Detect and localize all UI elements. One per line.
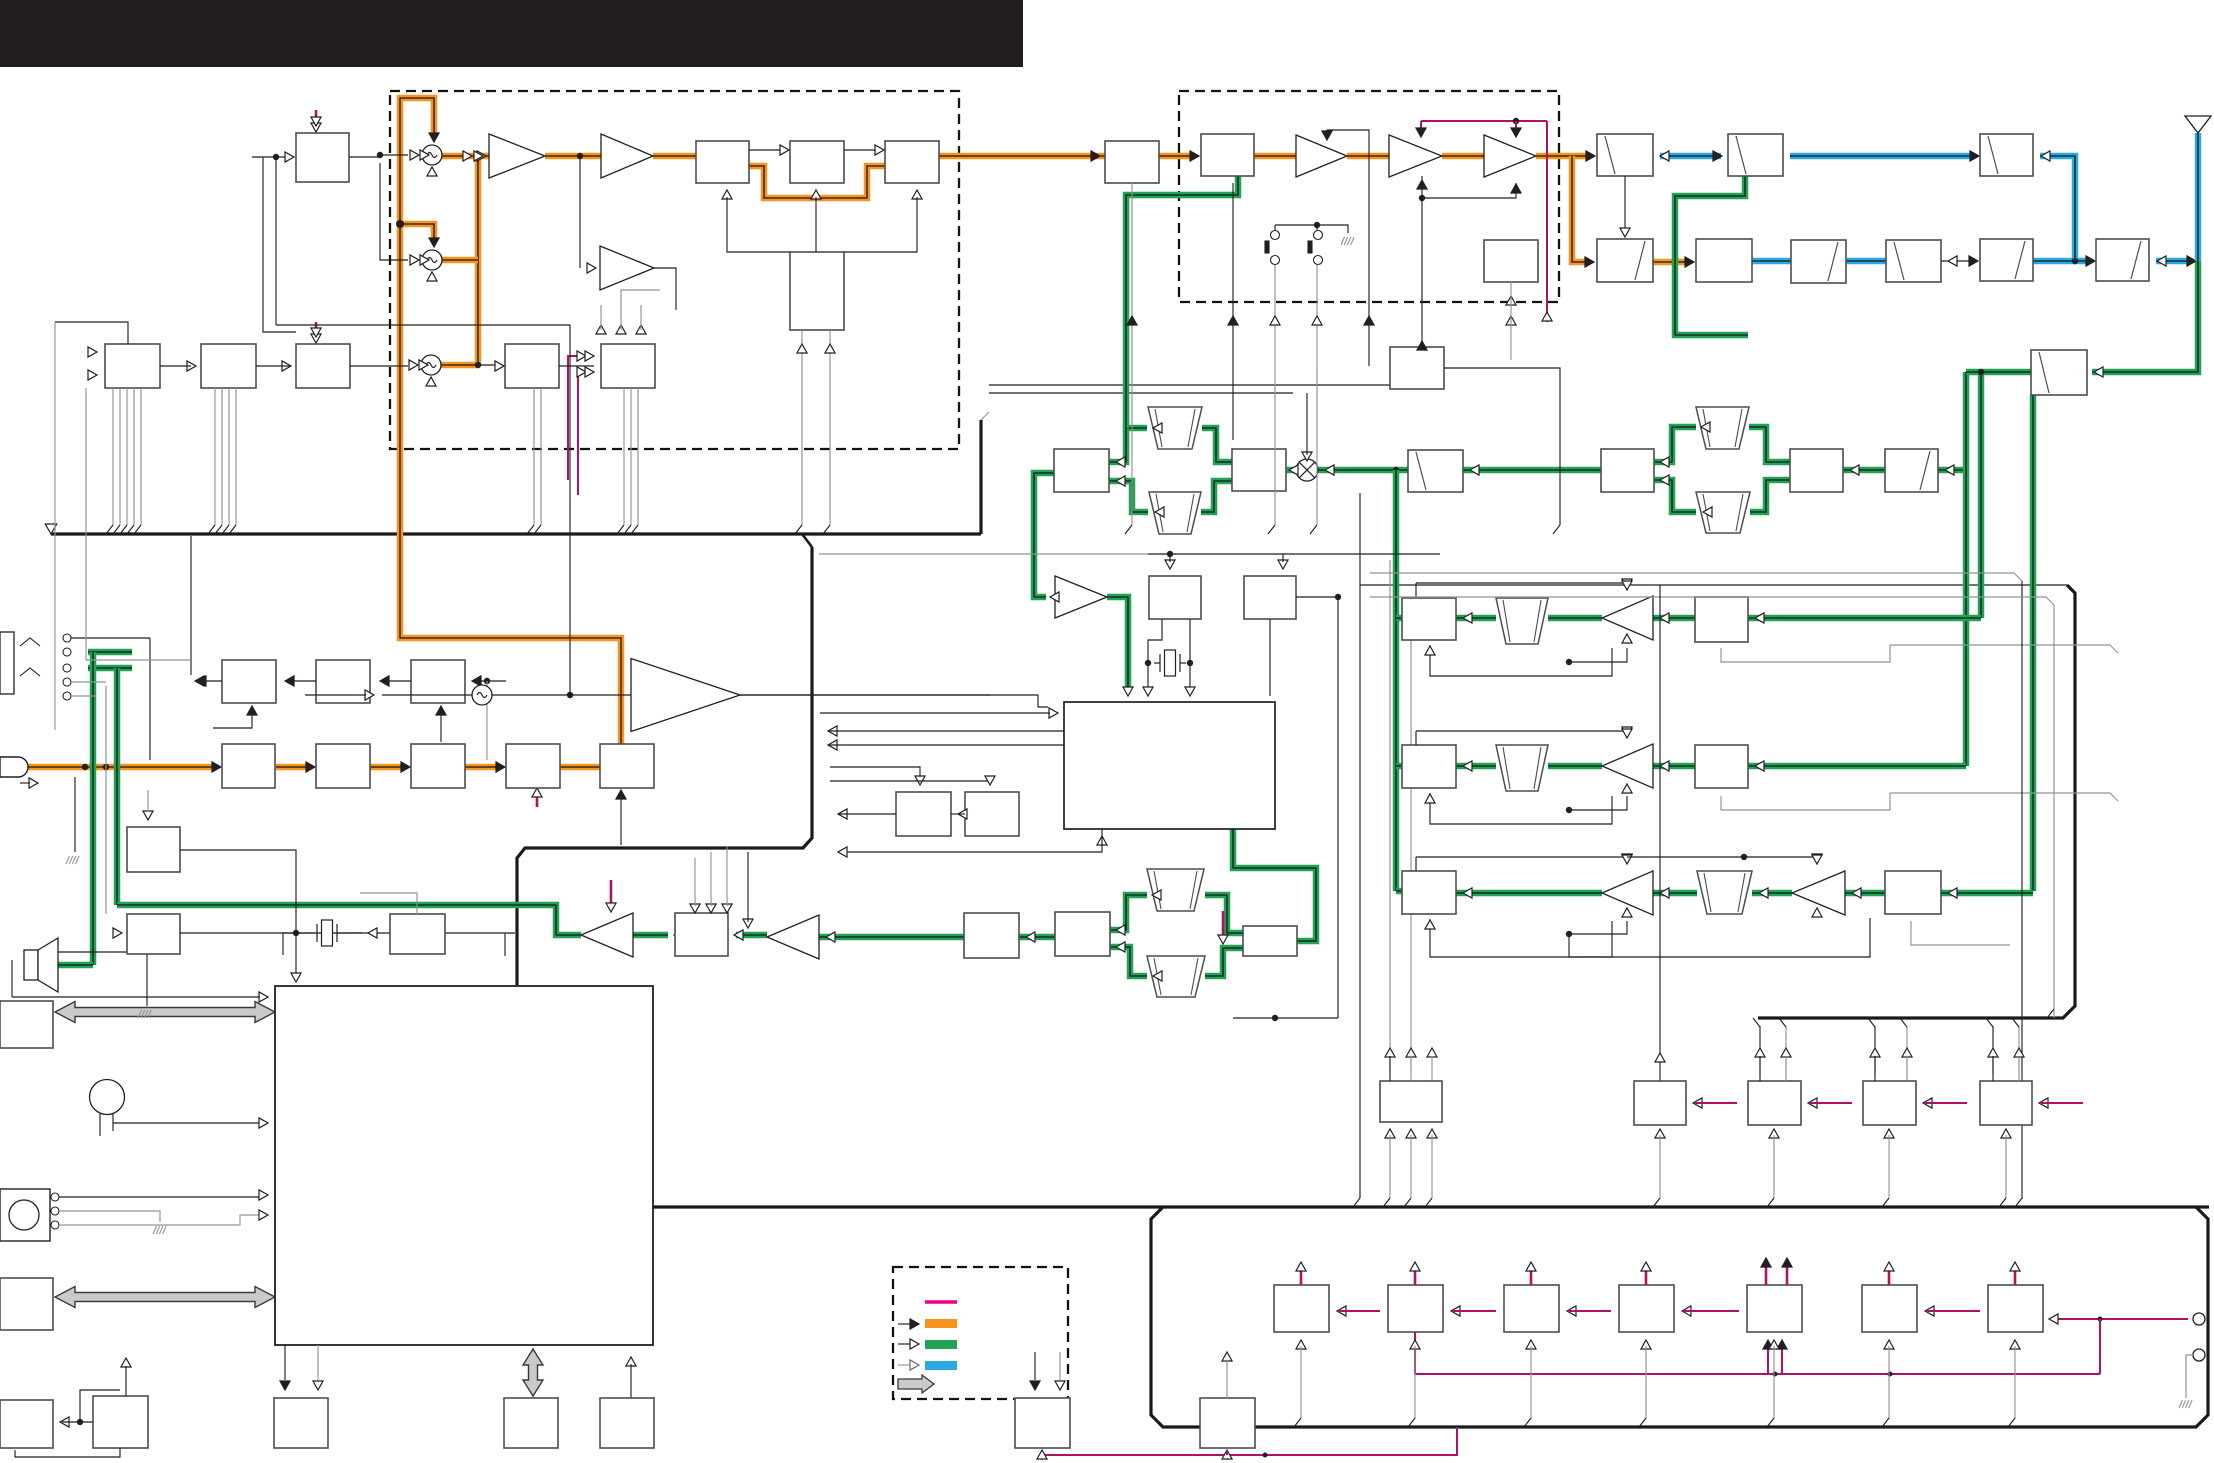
arrow p3 left [368,928,377,938]
wire j1 top b [710,852,712,906]
green rowC amp2-sc [1845,890,1885,897]
z1 border join [1294,1418,1301,1427]
arrow k3-k2 [380,676,389,686]
wire j1 top c [726,846,728,906]
arrow i1 in [495,361,504,371]
wire z1 bot [1300,1346,1302,1419]
arrow into vco2 [420,255,429,265]
arrow z4 top [1641,1262,1651,1271]
amp PA final [1484,135,1536,177]
x2022 join [2015,1198,2022,1207]
dot rowC top [1741,854,1747,860]
wire y4 bot [2005,1135,2007,1198]
green rowB trap-amp [1548,763,1602,770]
wire sA bottom [1721,645,1890,662]
z6 border join [1882,1418,1889,1427]
dot xtal b [1187,660,1193,666]
wire f1 feed [1421,198,1423,347]
wire y3 feed 0 [1874,1026,1876,1074]
rail ctl b [1370,597,2054,605]
green rtx riser b [1963,372,1970,766]
wire pin2 drop [2186,1355,2193,1398]
wire mic gnd [74,777,76,852]
green r1 riser to dsp [1233,829,1316,941]
connector mic body [0,1189,50,1241]
block PLL IC H3 [296,344,350,388]
wire ptt c [59,1215,260,1225]
arrow h1 in b [88,370,97,380]
f1 join [1553,525,1560,534]
ground panel [2179,1400,2192,1408]
arrow q4 in gray [1055,1381,1065,1390]
wire e2 bottom [1510,282,1512,360]
block TX filter C2 [790,141,844,183]
wire i2 drop 2 [637,388,639,525]
orange t1-t2 [276,764,309,771]
magenta junction [1513,118,1519,124]
wire smeter a [830,767,920,778]
arrow ptt small [29,778,38,788]
legend blue lead [898,1364,910,1366]
blue g3-g4 [1790,153,1973,160]
rail x1360 [1359,493,1361,1198]
tick z3 [1530,1270,1533,1285]
arrow la right a [1116,457,1125,467]
d1 join a [795,525,802,534]
arrow i2 top c [636,325,646,334]
wire h2 drop 1 [221,388,223,525]
h2 join 2 [222,525,229,534]
green speaker feed [47,962,93,969]
arrow c2 bottom [811,190,821,199]
block rowA S [1695,597,1748,642]
jack contact 4 [63,692,71,700]
block lpf R2f [2096,239,2149,281]
block keys left [0,1278,53,1330]
block shift reg H1 [105,344,160,388]
cpu bus arrow upper [55,1002,275,1023]
arrow y3 bot [1884,1129,1894,1138]
main unit bottom bus [653,1205,2209,1208]
green AF main run [117,905,581,935]
block APC amp [296,133,349,182]
h2 join 1 [215,525,222,534]
speaker symbol [24,938,58,992]
filter rowC [1697,871,1752,914]
tick z4 [1645,1270,1648,1285]
block shift reg H2 [201,344,256,388]
arrow z5 top 1 [1782,1258,1792,1267]
arrow trapgl left [1153,971,1162,981]
green qb upper a [1654,427,1696,462]
block panel key Z2 [1388,1285,1443,1332]
block quad-g left Lg [1055,912,1110,956]
arrow rx rf tick [1218,935,1228,944]
arrow y1 bot [1655,1129,1665,1138]
arrow y0 top 0 [1385,1048,1395,1057]
dashed box legend [893,1267,1068,1399]
wire y0 top 1 [1410,1056,1412,1081]
block TX drive C3 [885,141,939,183]
y0 bus join 2 [1425,1198,1432,1207]
wire q1 feed gray [317,1345,319,1380]
arrow z4 bot [1641,1340,1651,1349]
green IF down to dsp [1034,473,1054,597]
h2 join 3 [229,525,236,534]
wire h2 drop 2 [228,388,230,525]
arrow af amp tick [606,903,616,912]
arrow apc tick [311,123,321,132]
y0 bus join 0 [1383,1198,1390,1207]
block sql amp [965,792,1019,836]
magenta pa riser [1546,121,1548,322]
orange down branch [1572,156,1588,262]
block rowC S [1885,871,1941,914]
arrow rowB into n2 [1463,761,1472,771]
wire m1 xtal a [1148,619,1162,690]
wire tcxo out [492,694,631,696]
block af sw P1 [127,827,180,872]
wire h1 drop 1 [119,388,121,525]
filter quad-b upper [1696,407,1749,449]
wire y0 top 2 [1431,1056,1433,1081]
y2 join 0 [1753,1018,1760,1027]
mic junction a [82,764,88,770]
arrow trapbu left [1701,422,1710,432]
block eeprom Q2 [504,1398,558,1448]
arrow rowC amp2 feed [1812,855,1822,864]
wire ref bend [740,695,1048,707]
wire sw drop a2 [1274,366,1276,525]
tick tx alc [536,791,539,807]
h1 join 4 [134,525,141,534]
arrow rowC into amp2 [1852,888,1861,898]
amp TX buffer2 [601,134,653,178]
wire sw drop b2 [1316,366,1318,525]
arrow cpu ptt a [259,1190,268,1200]
arrow rowC into n3 [1463,888,1472,898]
wire rxbuf out [654,268,676,310]
wire z2 bot [1414,1346,1416,1419]
arrow rowA into sa [1755,613,1764,623]
green qb upper b [1749,427,1790,462]
arrow q0a in [60,1417,69,1427]
arrow z6 bot [1884,1340,1894,1349]
arrow y0 top 1 [1406,1048,1416,1057]
wire d1 right loop [844,197,917,252]
wire e1 bottom [1232,183,1234,366]
dot rowA ctl [1566,659,1572,665]
wire h3 out [350,365,408,367]
green rowA amp-sa [1653,615,1695,622]
wire cpu top in [12,996,260,998]
block lpf R2a [1597,239,1653,282]
crystal X1 [1154,650,1186,676]
z4 border join [1639,1418,1646,1427]
arrow into rbeta [1850,465,1859,475]
i2 join 2 [631,525,638,534]
arrow vco1 bottom [427,167,437,176]
wire y0 top 0 [1389,1056,1391,1081]
connector pin 1 [2193,1313,2205,1325]
legend green swatch [925,1340,957,1349]
wire y0 bot 2 [1431,1135,1433,1198]
wire c2-c3 link [844,149,878,151]
blue row2 b-c [1752,258,1791,265]
filter rowB [1496,745,1548,791]
block ant sw G1 [1597,134,1653,176]
arrow h1-h2 [187,361,196,371]
block eeprom Q0b [93,1396,148,1448]
wire smeter b [830,778,990,781]
block quad-b right Rb [1790,449,1843,492]
arrow a5 bottom [1511,184,1521,193]
arrow dashed pass a [1270,316,1280,325]
arrow q3 top [626,1357,636,1366]
wire i2 out up c [640,305,642,330]
wire z stub 0 [1339,1310,1380,1312]
arrow lg right a [1116,925,1125,935]
wire border drop [747,852,749,922]
wire a4 bottom [1422,176,1516,198]
arrow p1 top [143,811,153,820]
arrow rowA amp feed [1622,581,1632,590]
orange junction vco2 [396,220,404,228]
arrow q1 in black [280,1381,290,1390]
tick z2 [1414,1270,1417,1285]
wire y1 top link [1659,1074,1661,1081]
orange to ant switch [1572,153,1590,160]
IC DSP baseband [1064,702,1275,829]
wire f1 side [1444,368,1560,525]
arrow sm out [838,809,847,819]
block lpf R2b [1696,239,1752,282]
arrow z stub 1 [1451,1306,1460,1316]
block mic lim T4 [506,744,560,788]
filter quad-g lower [1147,956,1205,997]
arrow vco1 out a [463,151,472,161]
orange t4-t5 [560,764,600,771]
arrow dsp in b [1185,687,1195,696]
wire a3 drop [1368,164,1370,366]
arrow k1 left in [195,676,204,686]
connector contact 2 [51,1221,59,1229]
block lcd left [0,1001,53,1048]
mixer product det [1296,459,1318,481]
arrow af into j1 [674,930,683,940]
wire y2 feed2 1 [1785,1056,1787,1081]
cpu bus arrow lower [55,1287,275,1308]
green jack loop lower [88,665,132,672]
wire p2 out [180,932,515,934]
arrow trapl left [1155,507,1164,517]
block lpf R2e [1980,239,2033,281]
arrow c3 bottom [912,190,922,199]
amp rowB [1602,744,1653,788]
arrow y0 bot 1 [1406,1129,1416,1138]
orange to PA in [1159,153,1194,160]
arrow into g3 [1713,151,1722,161]
arrow rowB amp feed [1622,729,1632,738]
tick rx rf amp [1222,911,1225,935]
arrow smeter b [985,776,995,785]
arrow amp top 0 [1622,579,1632,588]
ground ptt [153,1226,166,1234]
wire z stub 5 [1927,1310,1980,1312]
dot m1 feed [1167,551,1173,557]
arrow into vco1 [420,150,429,160]
wire y2 magenta [1810,1102,1852,1104]
green junction w1 [1393,467,1399,473]
arrow into w1 [1470,465,1479,475]
h1 join 1 [113,525,120,534]
wire h1 left drop [54,322,56,730]
rail x2054 gray [2053,605,2055,1018]
i1 join 0 [527,525,534,534]
green ra-mixer [1286,467,1296,474]
green qb lower b [1750,480,1790,512]
orange row2 link [1653,259,1689,266]
wire hrow link [86,388,191,660]
arrow z3 top [1526,1262,1536,1271]
wire rowB top rise [1415,731,1417,745]
arrow into j1 [734,930,743,940]
arrow y4 top 1 [2014,1048,2024,1057]
wire jack c [71,681,106,683]
arrow i2 top b [616,325,626,334]
middle region bottom-right border [1758,585,2075,1018]
arrow z1 bot [1296,1340,1306,1349]
arrow pll tick [311,334,321,343]
arrow z2 bot [1410,1340,1420,1349]
arrow rowB into amp [1660,761,1669,771]
green qg upper a [1110,895,1147,930]
arrow tcxo in [365,690,374,700]
wire rowC fb [1430,919,1612,957]
h1 join 2 [120,525,127,534]
arrow z6 top [1884,1262,1894,1271]
switch thermal 2 [1308,231,1323,265]
arrow c3 in [875,145,884,155]
wire k1 out [199,680,222,682]
arrow h3 top [311,328,321,337]
arrow b1 top [311,117,321,126]
arrow pa drop b [1511,128,1521,137]
wire y2 feed 1 [1785,1026,1787,1074]
orange buf detour [749,166,885,198]
wire b1 out [349,156,380,158]
green rowA trap-amp [1548,615,1602,622]
legend arrow open gray [910,1360,919,1370]
arrow vco3 bottom [426,377,436,386]
wire q0a link [62,1421,93,1423]
switch stub b [1316,225,1318,230]
orange t2-t3 [370,764,404,771]
wire y1 bot [1659,1135,1661,1198]
arrow into e1 [1190,151,1199,161]
ground mic [66,856,79,864]
dashed box TX VCO unit [390,91,959,449]
arrow out g1 [1660,151,1669,161]
dot rxbuf [577,153,583,159]
arrow vco1 in [410,150,419,160]
block s-meter amp [896,792,951,836]
arrow pa drop a [1416,128,1426,137]
arrow amp bot 0 [1622,634,1632,643]
wire ptt b [59,1211,160,1222]
wire i1 drop 0 [533,388,535,525]
blue junction dot overdraw [2072,258,2078,264]
tick apc block [315,110,318,124]
arrow la right b [1116,476,1125,486]
arrow p2 in [113,928,122,938]
arrow mic t1 [212,762,221,772]
wire sC bottom [1911,921,2010,945]
arrow sql out [958,809,967,819]
arrow c1 bottom [722,190,732,199]
block buffer E0 [1105,141,1159,183]
wire i2 out up a [600,305,602,330]
blue row2 c-d [1846,258,1886,265]
arrow q5 top [1222,1352,1232,1361]
arrow dsp in a [1143,687,1153,696]
block rx flt G4 [1980,134,2033,176]
block rowB S [1695,745,1748,788]
arrow e2 bottom b [1506,316,1516,325]
arrow rowA into n1 [1463,613,1472,623]
arrow t5 bottom [616,790,626,799]
unit border top-left bottom edge [51,532,981,535]
arrow n1 bottom [1425,646,1435,655]
green rowA sa-riser [1748,615,1981,622]
wire h1 loop [55,322,128,344]
y1 bus join [1653,1198,1660,1207]
filter quad-g upper [1147,869,1204,911]
arrow z stub 3 [1682,1306,1691,1316]
wire y1 magenta [1695,1102,1737,1104]
arrow n3 bottom [1425,920,1435,929]
wire tcxo in [305,694,366,696]
green rowC n3-amp [1456,890,1602,897]
wire e1 drop2 [1232,366,1234,440]
oscillator VCO2 [422,250,442,270]
arrow e0 pass [1127,316,1137,325]
orange VCO3 out [441,362,478,369]
wire rowC ctl [1569,921,1627,934]
dot chain a [1773,1372,1778,1377]
wire h1 drop 3 [133,388,135,525]
dot chain b [1888,1372,1893,1377]
green rbeta-v1 [1843,467,1885,474]
legend green lead [898,1343,910,1345]
wire b1 drop b [275,157,277,325]
wire y4 feed 0 [1992,1026,1994,1074]
arrow into v1 [1945,465,1954,475]
arrow magenta riser [1542,312,1552,321]
orange VCO chain vertical [475,156,482,365]
arrow into g11 [2094,367,2103,377]
dot xtal a [1145,660,1151,666]
wire y4 feed2 0 [1992,1056,1994,1081]
switch stub a [1274,225,1276,230]
arrow rowC into sc [1948,888,1957,898]
green qa lower b [1201,481,1232,512]
orange VCO1 out [442,153,489,160]
wire z6 bot [1888,1346,1890,1419]
wire ptt a [59,1196,260,1198]
arrow y2 top 1 [1781,1048,1791,1057]
rail x1411 gray [1410,640,1412,1072]
